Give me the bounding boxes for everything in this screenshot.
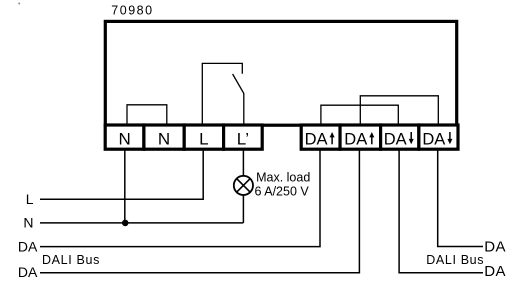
svg-text:70980: 70980 xyxy=(111,3,153,17)
wire N vertical (terminal N1 down) xyxy=(124,149,126,223)
terminal L' box xyxy=(224,125,263,149)
svg-text:DA: DA xyxy=(344,130,367,148)
wire DA2-DA4 internal bridge xyxy=(360,96,438,124)
svg-text:DA: DA xyxy=(384,130,407,148)
terminal DA4 box xyxy=(419,125,458,149)
wire N-N internal bridge xyxy=(127,105,167,124)
wire DA1 (down and left) xyxy=(40,149,320,247)
terminal N1 box xyxy=(105,125,144,149)
wire lamp to N line xyxy=(242,195,244,223)
svg-text:DALI Bus: DALI Bus xyxy=(426,253,484,267)
annotation Max. load 6 A/250 V xyxy=(255,171,311,199)
pin label DA2 (DA up) xyxy=(344,130,374,148)
svg-text:DA: DA xyxy=(18,264,38,280)
svg-text:6 A/250 V: 6 A/250 V xyxy=(255,185,310,199)
lamp E1 xyxy=(234,176,253,195)
wire DA4 (down and right) xyxy=(438,149,483,247)
speck (scan artifact dot) xyxy=(18,3,20,5)
svg-text:N: N xyxy=(23,214,33,230)
terminal N2 box xyxy=(144,125,184,149)
wire L (terminal L down and left) xyxy=(40,149,203,199)
terminal DA2 box xyxy=(340,125,381,149)
switch S1 blade (to L') xyxy=(233,74,244,124)
pin label DA4 (DA down) xyxy=(422,130,452,148)
svg-text:DALI Bus: DALI Bus xyxy=(42,253,100,267)
device U1 outline xyxy=(105,21,456,125)
junction N xyxy=(122,220,129,227)
svg-text:DA: DA xyxy=(305,130,328,148)
svg-text:L’: L’ xyxy=(237,129,249,148)
wire DA1-DA3 internal bridge xyxy=(321,105,398,124)
svg-text:N: N xyxy=(158,129,170,148)
wire N horizontal xyxy=(40,222,243,224)
terminal DA1 box xyxy=(301,125,340,149)
svg-text:DA: DA xyxy=(484,238,506,255)
wire DA3 (down and right) xyxy=(399,149,483,273)
wire L' to lamp xyxy=(242,149,244,176)
svg-text:DA: DA xyxy=(422,130,445,148)
svg-text:N: N xyxy=(118,129,130,148)
svg-text:L: L xyxy=(199,129,208,148)
wire DA2 (down and left) xyxy=(40,149,359,273)
terminal L box xyxy=(184,125,223,149)
svg-text:L: L xyxy=(26,191,34,207)
svg-text:DA: DA xyxy=(18,238,38,254)
pin label DA3 (DA down) xyxy=(384,130,414,148)
svg-text:Max. load: Max. load xyxy=(256,171,310,185)
svg-text:DA: DA xyxy=(484,263,506,280)
terminal DA3 box xyxy=(381,125,419,149)
switch S1 fixed contact wire (L to contact) xyxy=(202,63,242,124)
pin label DA1 (DA up) xyxy=(305,130,335,148)
